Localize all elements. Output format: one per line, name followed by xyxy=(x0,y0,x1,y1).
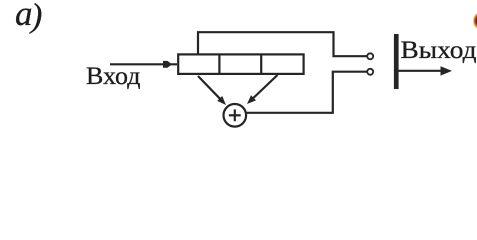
svg-text:): ) xyxy=(29,0,42,35)
svg-text:Выход: Выход xyxy=(401,37,477,64)
svg-text:Вход: Вход xyxy=(86,63,141,90)
svg-text:а: а xyxy=(15,0,33,33)
